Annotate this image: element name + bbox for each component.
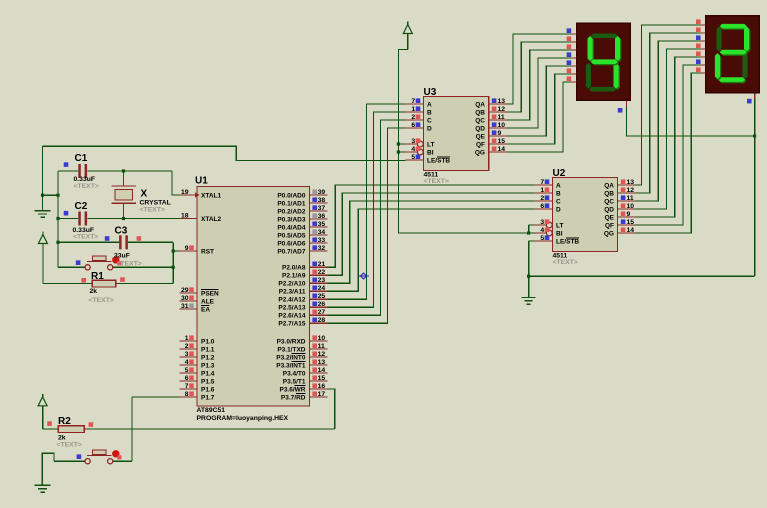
svg-text:3: 3 bbox=[540, 219, 544, 226]
svg-text:A: A bbox=[427, 101, 432, 108]
svg-text:<TEXT>: <TEXT> bbox=[74, 183, 99, 190]
svg-text:P1.3: P1.3 bbox=[201, 362, 215, 369]
svg-text:11: 11 bbox=[318, 343, 325, 350]
svg-text:P2.2/A10: P2.2/A10 bbox=[278, 281, 305, 288]
svg-text:P3.4/T0: P3.4/T0 bbox=[283, 370, 306, 377]
svg-text:QA: QA bbox=[604, 182, 614, 189]
svg-text:13: 13 bbox=[498, 98, 506, 105]
svg-text:35: 35 bbox=[318, 221, 326, 228]
svg-text:<TEXT>: <TEXT> bbox=[140, 207, 165, 214]
svg-text:R1: R1 bbox=[91, 271, 104, 282]
svg-text:ALE: ALE bbox=[201, 298, 215, 305]
svg-text:32: 32 bbox=[318, 245, 326, 252]
svg-text:39: 39 bbox=[318, 189, 326, 196]
svg-text:2: 2 bbox=[540, 195, 544, 202]
svg-text:P1.1: P1.1 bbox=[201, 346, 215, 353]
svg-text:QG: QG bbox=[604, 230, 614, 237]
svg-text:CRYSTAL: CRYSTAL bbox=[140, 200, 171, 207]
svg-text:<TEXT>: <TEXT> bbox=[89, 297, 114, 304]
svg-text:C1: C1 bbox=[75, 153, 88, 164]
svg-text:P0.4/AD4: P0.4/AD4 bbox=[277, 224, 306, 231]
svg-text:D: D bbox=[427, 125, 432, 132]
svg-text:15: 15 bbox=[318, 375, 326, 382]
svg-text:P1.5: P1.5 bbox=[201, 378, 215, 385]
svg-text:P2.0/A8: P2.0/A8 bbox=[282, 265, 306, 272]
svg-text:36: 36 bbox=[318, 213, 326, 220]
svg-text:C: C bbox=[556, 198, 561, 205]
svg-text:A: A bbox=[556, 182, 561, 189]
svg-text:XTAL1: XTAL1 bbox=[201, 192, 221, 199]
svg-text:P2.7/A15: P2.7/A15 bbox=[278, 321, 305, 328]
svg-text:P3.3/INT1: P3.3/INT1 bbox=[276, 362, 306, 369]
svg-text:QF: QF bbox=[476, 141, 485, 148]
svg-text:QE: QE bbox=[476, 133, 486, 140]
svg-text:P3.6/WR: P3.6/WR bbox=[279, 386, 305, 393]
svg-text:19: 19 bbox=[181, 189, 189, 196]
svg-text:C2: C2 bbox=[75, 201, 88, 212]
svg-text:P3.7/RD: P3.7/RD bbox=[281, 394, 306, 401]
svg-text:P0.6/AD6: P0.6/AD6 bbox=[277, 240, 306, 247]
svg-text:2: 2 bbox=[185, 343, 189, 350]
svg-text:U2: U2 bbox=[553, 168, 566, 179]
svg-text:<TEXT>: <TEXT> bbox=[553, 259, 578, 266]
svg-text:PSEN: PSEN bbox=[201, 290, 219, 297]
svg-text:P3.5/T1: P3.5/T1 bbox=[283, 378, 306, 385]
svg-text:15: 15 bbox=[498, 138, 506, 145]
svg-text:11: 11 bbox=[627, 195, 634, 202]
svg-text:QA: QA bbox=[475, 101, 485, 108]
svg-text:5: 5 bbox=[540, 235, 544, 242]
svg-text:P0.5/AD5: P0.5/AD5 bbox=[277, 232, 306, 239]
svg-text:QC: QC bbox=[475, 117, 485, 124]
svg-text:22: 22 bbox=[318, 269, 326, 276]
svg-text:4: 4 bbox=[540, 227, 544, 234]
svg-text:3: 3 bbox=[411, 138, 415, 145]
svg-text:C3: C3 bbox=[115, 226, 128, 237]
svg-text:P2.1/A9: P2.1/A9 bbox=[282, 273, 306, 280]
svg-text:9: 9 bbox=[627, 211, 631, 218]
svg-text:B: B bbox=[427, 109, 432, 116]
svg-text:33uF: 33uF bbox=[114, 253, 130, 260]
svg-text:P2.5/A13: P2.5/A13 bbox=[278, 305, 305, 312]
svg-text:34: 34 bbox=[318, 229, 326, 236]
svg-text:0.33uF: 0.33uF bbox=[74, 176, 96, 183]
svg-text:P1.4: P1.4 bbox=[201, 370, 215, 377]
svg-text:P3.0/RXD: P3.0/RXD bbox=[277, 338, 306, 345]
svg-text:18: 18 bbox=[181, 212, 189, 219]
svg-text:B: B bbox=[556, 190, 561, 197]
svg-text:2k: 2k bbox=[90, 288, 98, 295]
svg-text:P1.2: P1.2 bbox=[201, 354, 215, 361]
svg-text:PROGRAM=luoyanping.HEX: PROGRAM=luoyanping.HEX bbox=[197, 415, 289, 422]
svg-text:10: 10 bbox=[318, 335, 326, 342]
svg-text:QD: QD bbox=[475, 125, 485, 132]
svg-text:33: 33 bbox=[318, 237, 326, 244]
svg-text:<TEXT>: <TEXT> bbox=[73, 234, 98, 241]
svg-text:1: 1 bbox=[540, 187, 544, 194]
svg-text:14: 14 bbox=[627, 227, 635, 234]
svg-text:11: 11 bbox=[498, 114, 505, 121]
svg-text:1: 1 bbox=[411, 106, 415, 113]
svg-text:7: 7 bbox=[540, 179, 544, 186]
svg-text:21: 21 bbox=[318, 261, 326, 268]
svg-text:P0.1/AD1: P0.1/AD1 bbox=[277, 200, 306, 207]
svg-text:28: 28 bbox=[318, 317, 326, 324]
svg-text:XTAL2: XTAL2 bbox=[201, 216, 221, 223]
svg-text:BI: BI bbox=[427, 149, 434, 156]
svg-text:QE: QE bbox=[605, 214, 615, 221]
svg-text:6: 6 bbox=[540, 203, 544, 210]
svg-text:30: 30 bbox=[181, 295, 189, 302]
svg-text:27: 27 bbox=[318, 309, 326, 316]
svg-text:6: 6 bbox=[185, 375, 189, 382]
svg-text:LE/STB: LE/STB bbox=[427, 157, 450, 164]
svg-text:14: 14 bbox=[318, 367, 326, 374]
svg-text:P0.3/AD3: P0.3/AD3 bbox=[277, 216, 306, 223]
svg-text:7: 7 bbox=[185, 383, 189, 390]
svg-text:X: X bbox=[141, 189, 148, 200]
svg-text:D: D bbox=[556, 206, 561, 213]
svg-text:37: 37 bbox=[318, 205, 326, 212]
svg-text:P1.6: P1.6 bbox=[201, 386, 215, 393]
svg-text:R2: R2 bbox=[58, 416, 71, 427]
svg-text:1: 1 bbox=[185, 335, 189, 342]
svg-text:24: 24 bbox=[318, 285, 326, 292]
svg-text:2k: 2k bbox=[58, 435, 66, 442]
svg-text:RST: RST bbox=[201, 248, 214, 255]
svg-text:U1: U1 bbox=[195, 176, 208, 187]
svg-text:12: 12 bbox=[318, 351, 326, 358]
svg-text:4: 4 bbox=[411, 146, 415, 153]
svg-text:17: 17 bbox=[318, 391, 326, 398]
svg-text:8: 8 bbox=[185, 391, 189, 398]
svg-text:29: 29 bbox=[181, 287, 189, 294]
svg-text:15: 15 bbox=[627, 219, 635, 226]
svg-text:LT: LT bbox=[427, 141, 434, 148]
svg-text:12: 12 bbox=[498, 106, 506, 113]
svg-text:23: 23 bbox=[318, 277, 326, 284]
svg-text:EA: EA bbox=[201, 306, 210, 313]
svg-text:P1.0: P1.0 bbox=[201, 338, 215, 345]
svg-text:QC: QC bbox=[604, 198, 614, 205]
svg-text:12: 12 bbox=[627, 187, 635, 194]
svg-text:14: 14 bbox=[498, 146, 506, 153]
svg-text:10: 10 bbox=[627, 203, 635, 210]
svg-text:P0.0/AD0: P0.0/AD0 bbox=[277, 192, 306, 199]
svg-text:25: 25 bbox=[318, 293, 326, 300]
svg-text:U3: U3 bbox=[424, 87, 437, 98]
svg-text:QB: QB bbox=[475, 109, 485, 116]
svg-text:38: 38 bbox=[318, 197, 326, 204]
svg-text:13: 13 bbox=[318, 359, 326, 366]
svg-text:P3.2/INT0: P3.2/INT0 bbox=[276, 354, 306, 361]
svg-text:P2.6/A14: P2.6/A14 bbox=[278, 313, 305, 320]
svg-text:P2.4/A12: P2.4/A12 bbox=[278, 297, 305, 304]
svg-text:7: 7 bbox=[411, 98, 415, 105]
svg-text:P1.7: P1.7 bbox=[201, 394, 215, 401]
svg-text:3: 3 bbox=[185, 351, 189, 358]
svg-text:<TEXT>: <TEXT> bbox=[57, 442, 82, 449]
svg-text:QF: QF bbox=[605, 222, 614, 229]
svg-text:QB: QB bbox=[604, 190, 614, 197]
svg-text:5: 5 bbox=[411, 154, 415, 161]
svg-text:13: 13 bbox=[627, 179, 635, 186]
svg-text:9: 9 bbox=[498, 130, 502, 137]
svg-text:AT89C51: AT89C51 bbox=[197, 407, 226, 414]
svg-text:P0.2/AD2: P0.2/AD2 bbox=[277, 208, 306, 215]
svg-text:10: 10 bbox=[498, 122, 506, 129]
svg-text:P2.3/A11: P2.3/A11 bbox=[279, 289, 306, 296]
svg-text:6: 6 bbox=[411, 122, 415, 129]
svg-text:9: 9 bbox=[185, 245, 189, 252]
svg-text:P0.7/AD7: P0.7/AD7 bbox=[277, 248, 306, 255]
svg-text:P3.1/TXD: P3.1/TXD bbox=[277, 346, 305, 353]
svg-text:<TEXT>: <TEXT> bbox=[424, 178, 449, 185]
svg-text:<TEXT>: <TEXT> bbox=[117, 260, 142, 267]
svg-text:26: 26 bbox=[318, 301, 326, 308]
svg-text:31: 31 bbox=[181, 303, 189, 310]
svg-text:LE/STB: LE/STB bbox=[556, 238, 579, 245]
svg-text:QG: QG bbox=[475, 149, 485, 156]
svg-text:C: C bbox=[427, 117, 432, 124]
svg-text:BI: BI bbox=[556, 230, 563, 237]
svg-text:4: 4 bbox=[185, 359, 189, 366]
svg-text:2: 2 bbox=[411, 114, 415, 121]
svg-text:QD: QD bbox=[604, 206, 614, 213]
svg-text:5: 5 bbox=[185, 367, 189, 374]
svg-text:16: 16 bbox=[318, 383, 326, 390]
svg-text:LT: LT bbox=[556, 222, 563, 229]
